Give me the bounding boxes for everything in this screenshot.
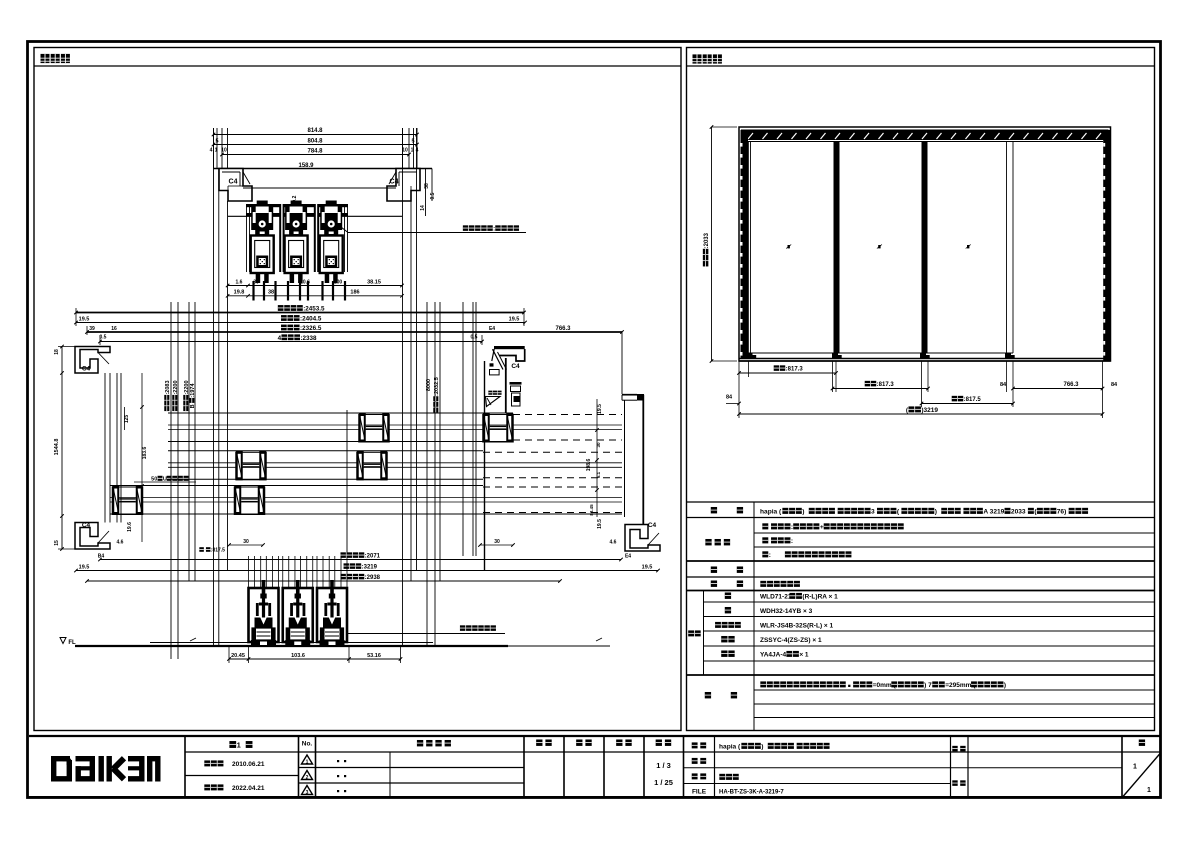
svg-text:19.8: 19.8: [234, 290, 245, 296]
svg-text:4.6: 4.6: [610, 540, 617, 546]
svg-text::817.3: :817.3: [877, 382, 895, 388]
svg-text::2200: :2200: [173, 380, 179, 394]
floor line front: [739, 358, 1111, 360]
svg-text:): ): [1004, 682, 1006, 689]
left frame top C4: [75, 347, 110, 374]
svg-text:E4: E4: [625, 554, 631, 560]
leader 吊戸レール: [348, 232, 526, 234]
svg-text:10: 10: [402, 148, 408, 154]
svg-text:) 7: ) 7: [924, 682, 932, 689]
svg-text:53.16: 53.16: [367, 653, 381, 659]
svg-text:C4: C4: [82, 366, 91, 373]
svg-text::3219: :3219: [362, 565, 378, 571]
svg-text:19.5: 19.5: [597, 519, 603, 529]
svg-text:5: 5: [411, 139, 414, 145]
svg-text:2033: 2033: [1011, 509, 1026, 516]
left frame member: [741, 130, 749, 358]
svg-text::2071: :2071: [365, 554, 381, 560]
svg-text:(R-L)RA × 1: (R-L)RA × 1: [802, 594, 838, 601]
svg-text:83.45: 83.45: [589, 504, 594, 516]
svg-text:8000: 8000: [426, 379, 432, 391]
svg-text:103.6: 103.6: [291, 653, 305, 659]
right vertical dims: [596, 399, 598, 517]
svg-text:84: 84: [726, 395, 733, 401]
svg-text::2453.5: :2453.5: [303, 306, 325, 313]
panel bottom feet: [747, 353, 753, 359]
svg-text:76): 76): [1057, 509, 1067, 516]
svg-text:20.45: 20.45: [231, 653, 245, 659]
svg-text:14: 14: [420, 205, 426, 211]
svg-text:× 1: × 1: [799, 652, 809, 659]
svg-text:183.6: 183.6: [142, 447, 148, 460]
hanger units: [257, 201, 268, 205]
svg-text:0.5: 0.5: [100, 335, 107, 341]
svg-text:100: 100: [334, 280, 343, 286]
left view box: [34, 48, 681, 731]
svg-text:784.8: 784.8: [307, 149, 323, 155]
svg-text:19.5: 19.5: [509, 317, 520, 323]
spec table: [687, 501, 1155, 503]
svg-text:+: +: [820, 524, 824, 531]
top rail band: [741, 130, 1109, 141]
door tracks (plan): [168, 412, 513, 414]
svg-text:): ): [802, 509, 804, 516]
svg-text:3: 3: [871, 509, 875, 516]
svg-text:1.6: 1.6: [236, 280, 243, 286]
svg-text:WDH32-14YB × 3: WDH32-14YB × 3: [760, 608, 813, 615]
svg-text:C4: C4: [229, 179, 238, 186]
svg-text:4.6: 4.6: [117, 540, 124, 546]
svg-text::2032.5: :2032.5: [434, 377, 440, 396]
svg-text:No.: No.: [302, 741, 313, 748]
svg-text:hapia (: hapia (: [760, 509, 782, 516]
svg-text::: :: [769, 552, 771, 559]
svg-text:198.6: 198.6: [586, 459, 592, 472]
svg-text:186: 186: [350, 290, 359, 296]
svg-text:1: 1: [1147, 787, 1151, 794]
right frame member: [1103, 130, 1111, 361]
front view outline: [739, 127, 1111, 361]
svg-text::2326.5: :2326.5: [300, 325, 322, 332]
left frame bottom C4: [75, 523, 110, 550]
svg-text:C4: C4: [511, 363, 520, 370]
svg-text:hapia (: hapia (: [719, 744, 741, 751]
svg-text:FILE: FILE: [692, 789, 707, 796]
track band: [246, 204, 348, 207]
svg-text:3: 3: [306, 790, 309, 796]
svg-text:38: 38: [424, 183, 430, 189]
svg-text:0.5: 0.5: [430, 192, 436, 199]
svg-text:B: B: [190, 404, 196, 408]
svg-text:158.9: 158.9: [298, 163, 314, 169]
svg-text:ZSSYC-4(ZS-ZS) × 1: ZSSYC-4(ZS-ZS) × 1: [760, 637, 822, 644]
svg-text:0.5: 0.5: [471, 335, 478, 341]
svg-text:19.5: 19.5: [79, 565, 90, 571]
svg-text:38: 38: [268, 290, 274, 296]
svg-text:6.1: 6.1: [596, 471, 601, 478]
svg-text:E4: E4: [489, 326, 495, 332]
svg-text:WLR-JS4B-32S(R-L) × 1: WLR-JS4B-32S(R-L) × 1: [760, 623, 834, 630]
underside plate: [243, 187, 396, 189]
svg-text:19.5: 19.5: [79, 317, 90, 323]
svg-text::2404.5: :2404.5: [300, 316, 322, 323]
svg-text:C4: C4: [82, 522, 91, 529]
svg-text:U: U: [163, 477, 167, 483]
long verticals: [213, 128, 215, 646]
svg-text:19.5: 19.5: [642, 565, 653, 571]
svg-text:): ): [935, 509, 937, 516]
svg-text:39: 39: [89, 326, 95, 332]
svg-text::817.5: :817.5: [211, 548, 225, 554]
bottom dims: [229, 658, 401, 660]
svg-text:30: 30: [596, 442, 601, 448]
svg-text:1: 1: [1133, 764, 1137, 771]
svg-text:30: 30: [494, 539, 500, 545]
svg-text:YA4JA-4: YA4JA-4: [760, 652, 787, 659]
title block: [29, 735, 1161, 737]
left jamb C4: [219, 169, 252, 202]
svg-text:16: 16: [111, 326, 117, 332]
right view box: [687, 48, 1155, 731]
svg-text:84: 84: [1111, 382, 1118, 388]
svg-text::1974: :1974: [190, 383, 196, 398]
left vertical dim: [711, 127, 713, 361]
svg-text:C4: C4: [648, 522, 657, 529]
svg-text:804.8: 804.8: [307, 139, 323, 145]
rotated labels left cluster: [164, 380, 171, 411]
svg-text:814.8: 814.8: [307, 128, 323, 134]
svg-text::: :: [791, 524, 793, 531]
svg-text:84: 84: [1000, 382, 1007, 388]
svg-text:B4: B4: [98, 554, 105, 560]
svg-text::817.3: :817.3: [786, 367, 804, 373]
svg-text:19.6: 19.6: [127, 522, 133, 532]
svg-text:2022.04.21: 2022.04.21: [232, 785, 265, 792]
bottom-right frame C4: [625, 525, 660, 552]
left outer dim: [61, 347, 63, 550]
svg-text:15: 15: [54, 540, 60, 546]
svg-text:2: 2: [306, 775, 309, 781]
svg-text:A 3219: A 3219: [983, 509, 1004, 516]
DAIKEN logo: [51, 756, 56, 782]
svg-text::: :: [493, 227, 495, 233]
svg-text::2338: :2338: [300, 335, 317, 342]
top dim lines: [214, 134, 418, 136]
svg-text:38.15: 38.15: [367, 280, 381, 286]
svg-text::817.5: :817.5: [964, 397, 982, 403]
handles: [788, 245, 790, 248]
svg-text:1544.8: 1544.8: [54, 439, 60, 456]
svg-text::2083: :2083: [165, 380, 171, 394]
svg-text:4: 4: [278, 335, 282, 342]
floor guide units: [249, 588, 279, 642]
svg-text:WLD71-21: WLD71-21: [760, 594, 792, 601]
pocket verticals: [104, 373, 106, 523]
right wall profile: [637, 394, 644, 401]
svg-text:1 / 25: 1 / 25: [654, 778, 673, 787]
bottom dims front: [739, 372, 836, 374]
dims below hangers: [228, 285, 402, 287]
svg-text:1: 1: [306, 760, 309, 766]
svg-text:125: 125: [124, 415, 130, 424]
panels: [748, 142, 750, 354]
svg-text:FL: FL: [68, 640, 76, 646]
svg-text::: :: [791, 538, 793, 545]
svg-text:)3219: )3219: [921, 407, 938, 414]
mid-right pocket frame C4: [494, 346, 525, 349]
svg-text:18: 18: [54, 349, 60, 355]
svg-text:1 / 3: 1 / 3: [656, 761, 671, 770]
rev table: [229, 741, 236, 748]
svg-text:766.3: 766.3: [1063, 382, 1079, 388]
svg-text:C4: C4: [390, 179, 399, 186]
svg-text:766.3: 766.3: [555, 326, 571, 332]
svg-text:4: 4: [210, 148, 213, 154]
svg-text::2938: :2938: [365, 575, 381, 581]
svg-text:19.5: 19.5: [597, 404, 603, 414]
stack dims: [76, 312, 524, 314]
床付下レール leader: [347, 633, 505, 635]
svg-text:30: 30: [243, 539, 249, 545]
svg-text::2033: :2033: [704, 232, 710, 248]
svg-text:HA-BT-ZS-3K-A-3219-7: HA-BT-ZS-3K-A-3219-7: [719, 790, 784, 796]
svg-text:2010.06.21: 2010.06.21: [232, 761, 265, 768]
right jamb C4: [387, 169, 420, 202]
floor line: [75, 645, 508, 647]
svg-text:): ): [761, 744, 763, 751]
svg-text:1: 1: [237, 741, 241, 750]
bottom stack dims: [100, 559, 621, 561]
ceiling line: [214, 168, 433, 170]
svg-text:50: 50: [151, 477, 157, 483]
